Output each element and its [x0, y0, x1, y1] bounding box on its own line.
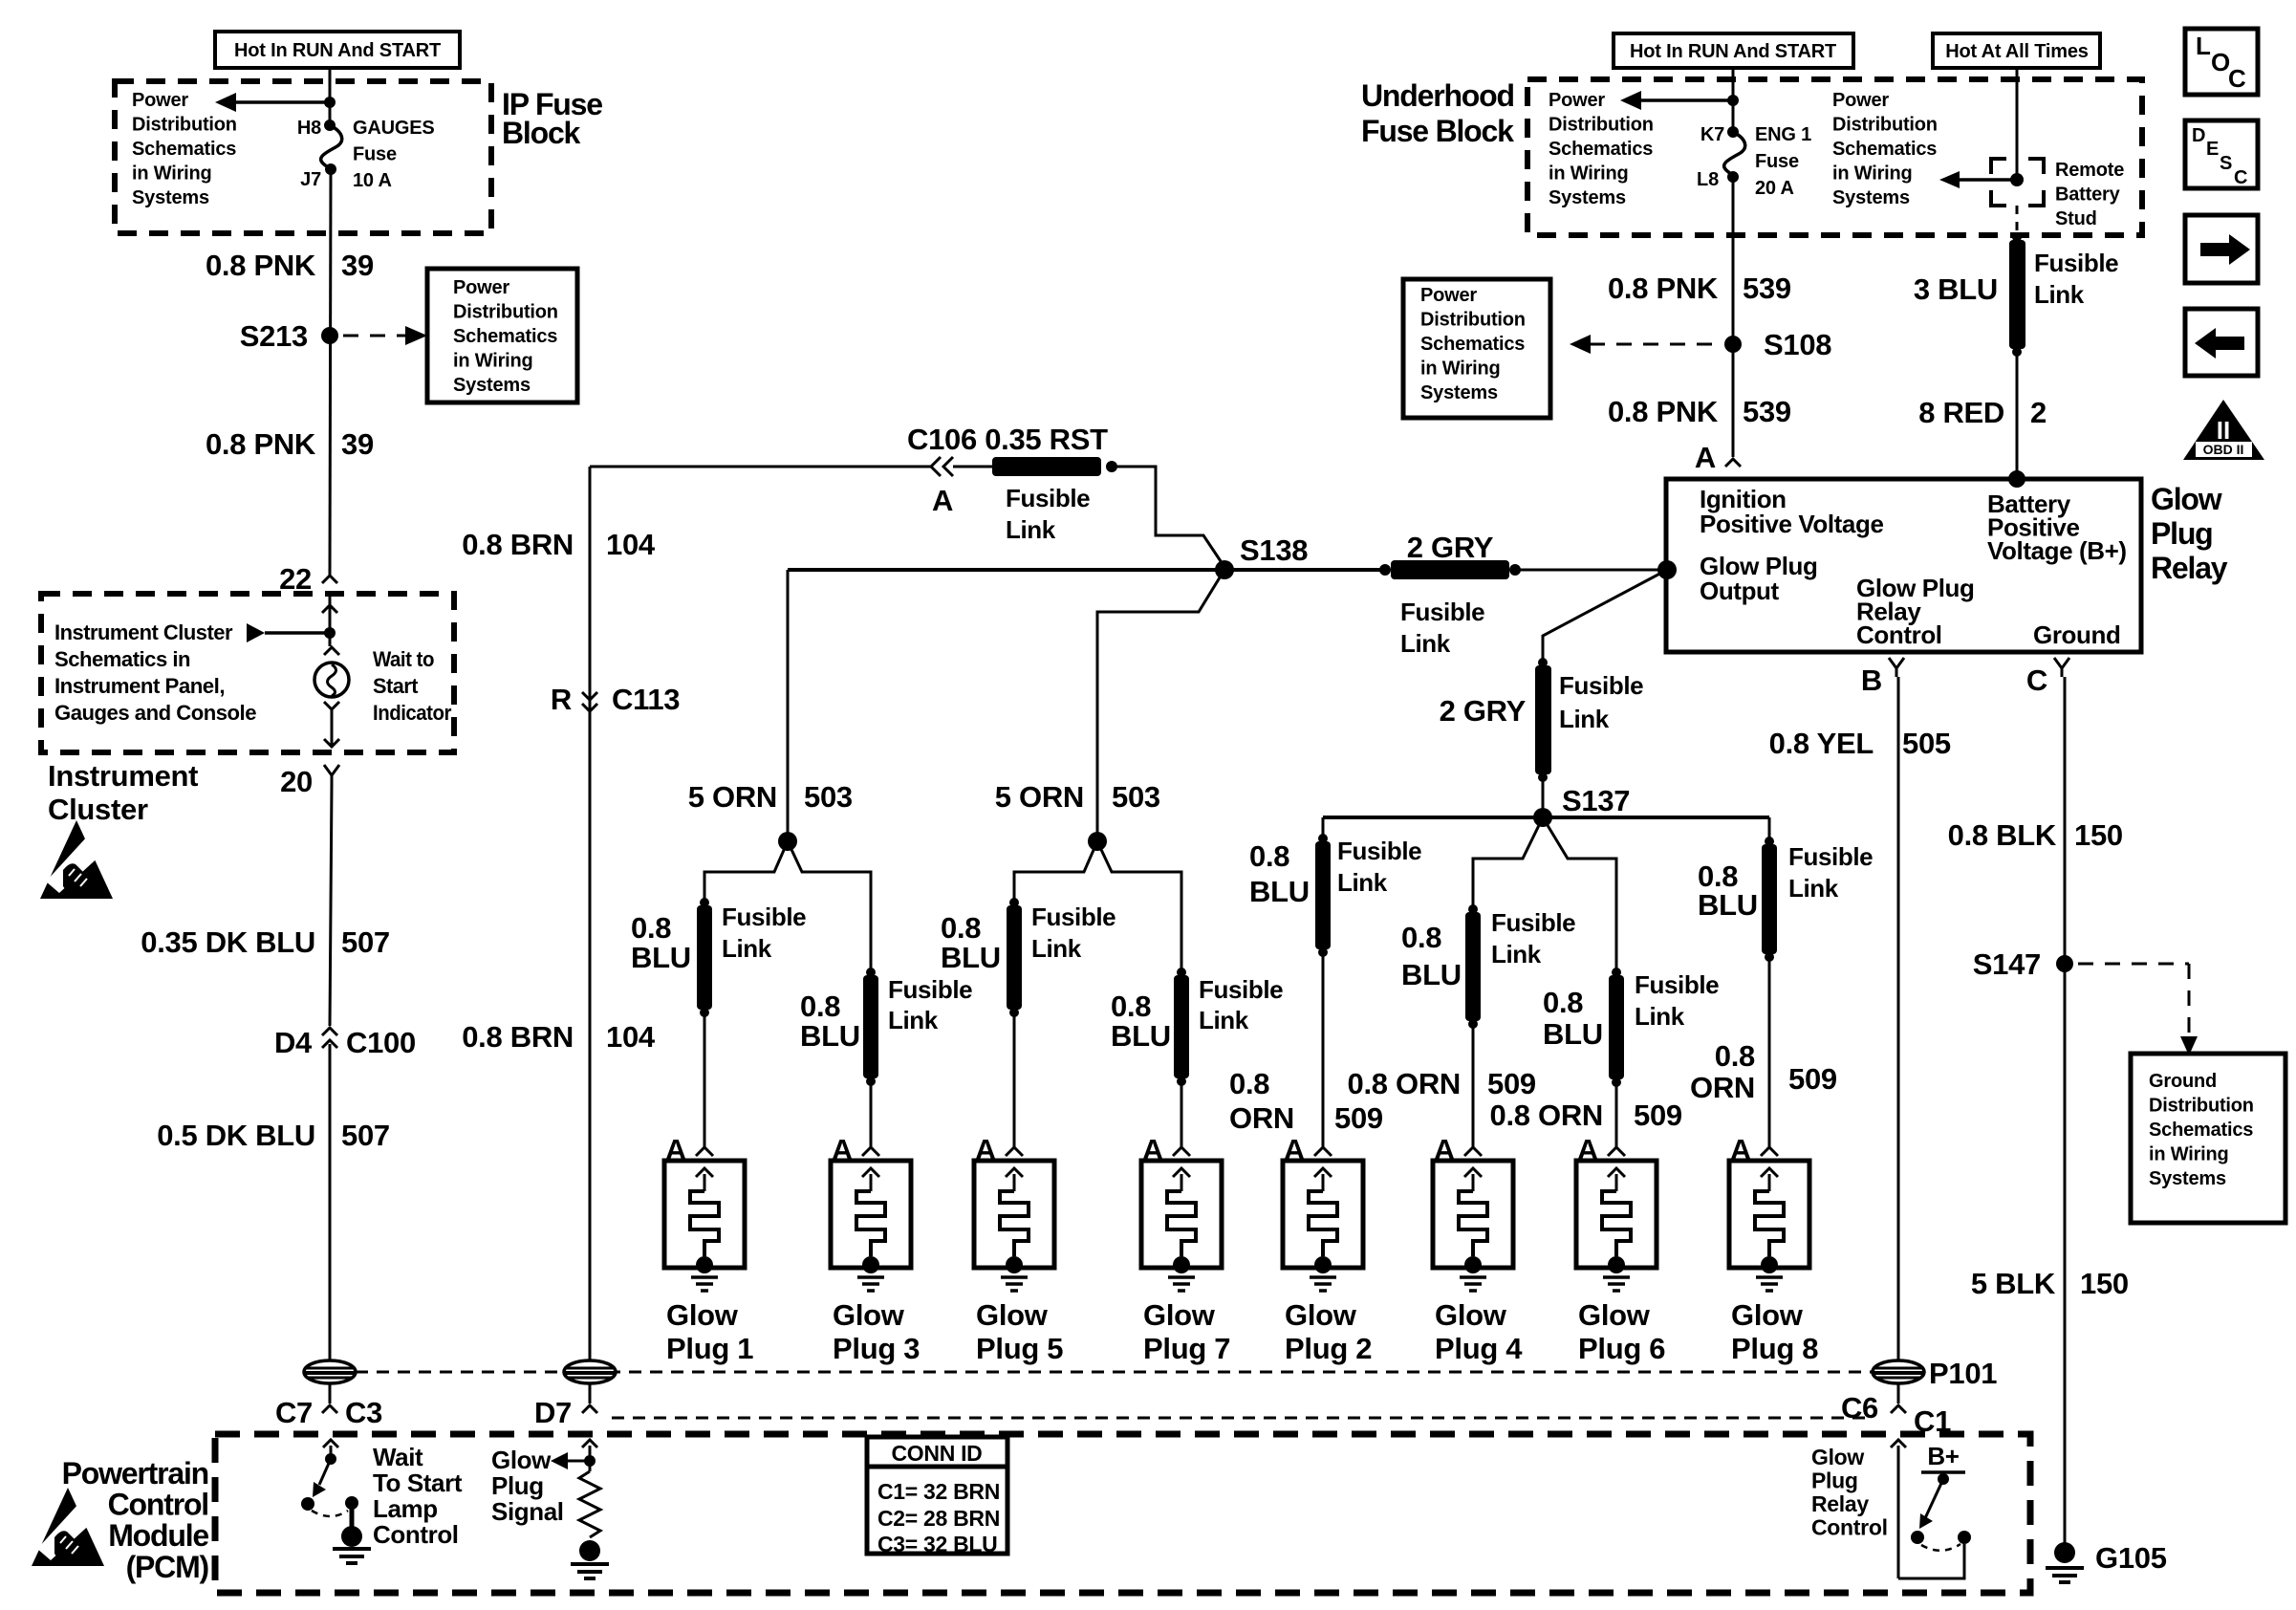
svg-text:D4: D4	[274, 1026, 313, 1059]
svg-text:BLU: BLU	[800, 1019, 860, 1053]
svg-text:Control: Control	[1856, 620, 1942, 649]
glow plug 8	[1729, 1161, 1809, 1268]
svg-text:507: 507	[341, 925, 390, 959]
svg-text:C3: C3	[345, 1396, 382, 1429]
reference box: ground distribution schematics	[2131, 1054, 2285, 1223]
fuse ENG 1 20A (pins K7/L8)	[1727, 126, 1739, 138]
svg-text:Signal: Signal	[491, 1497, 564, 1526]
svg-text:Systems: Systems	[453, 375, 531, 396]
wire below indicator with arrow	[331, 709, 334, 745]
svg-text:0.8: 0.8	[631, 911, 671, 945]
svg-text:Fusible: Fusible	[1199, 975, 1283, 1004]
svg-text:Link: Link	[1491, 940, 1542, 968]
svg-text:O: O	[2211, 48, 2230, 76]
svg-text:0.8: 0.8	[1229, 1067, 1269, 1100]
svg-text:39: 39	[341, 249, 374, 282]
svg-text:10 A: 10 A	[353, 170, 392, 191]
ground at glow plug 2	[1310, 1275, 1336, 1279]
svg-text:0.8 YEL: 0.8 YEL	[1769, 727, 1874, 760]
glow plug 6	[1576, 1161, 1657, 1268]
wait to start indicator lamp	[324, 647, 339, 655]
svg-text:Systems: Systems	[1549, 187, 1626, 208]
ground G105	[2054, 1542, 2075, 1563]
bus S138 right to 2 GRY link	[1224, 568, 1385, 572]
ground at glow plug 1	[691, 1275, 718, 1279]
svg-text:(PCM): (PCM)	[126, 1550, 209, 1584]
svg-text:Powertrain: Powertrain	[62, 1456, 208, 1490]
svg-text:Fusible: Fusible	[722, 903, 806, 931]
svg-text:Plug: Plug	[2151, 516, 2213, 551]
fusible link for glow plug 2	[1318, 834, 1328, 843]
svg-text:503: 503	[804, 780, 853, 814]
svg-text:Distribution: Distribution	[453, 302, 558, 323]
svg-text:B: B	[1861, 664, 1882, 697]
glow plug 3	[831, 1161, 911, 1268]
svg-text:Remote: Remote	[2055, 160, 2124, 181]
fusible link for glow plug 5	[1009, 898, 1019, 907]
svg-text:0.8 BLK: 0.8 BLK	[1948, 818, 2057, 852]
svg-text:Fuse: Fuse	[1755, 151, 1799, 172]
ground at glow plug 6	[1603, 1275, 1630, 1279]
switch arm with arrow	[1925, 1479, 1943, 1518]
svg-text:Positive Voltage: Positive Voltage	[1700, 510, 1884, 538]
svg-text:Lamp: Lamp	[373, 1494, 438, 1523]
svg-text:Instrument Panel,: Instrument Panel,	[54, 674, 225, 698]
branch to glow plug 1	[704, 841, 788, 900]
svg-text:2 GRY: 2 GRY	[1407, 531, 1494, 564]
svg-text:Module: Module	[108, 1518, 208, 1553]
wire drop to glow plug 2 link	[1322, 817, 1325, 836]
svg-text:Fusible: Fusible	[1031, 903, 1116, 931]
node at arrow junction	[324, 97, 336, 108]
svg-text:Link: Link	[1031, 934, 1082, 963]
svg-text:D: D	[2192, 125, 2205, 146]
svg-text:Schematics: Schematics	[1549, 139, 1653, 160]
svg-text:Distribution: Distribution	[132, 115, 237, 136]
svg-text:104: 104	[606, 528, 656, 561]
svg-text:Fusible: Fusible	[1491, 908, 1575, 937]
icon arrow left	[2185, 309, 2258, 376]
svg-text:CONN ID: CONN ID	[891, 1441, 982, 1466]
svg-text:C113: C113	[612, 683, 680, 716]
dashed arrow S108 to power distribution note	[1590, 343, 1720, 346]
svg-text:5 ORN: 5 ORN	[995, 780, 1084, 814]
wire relay C (ground) down to G105	[2064, 677, 2067, 1547]
connector C106 pin A	[931, 457, 941, 476]
svg-text:Control: Control	[108, 1488, 208, 1522]
grommet on wait-to-start wire	[304, 1360, 356, 1383]
arrow from note to wire	[247, 623, 265, 642]
svg-text:BLU: BLU	[1111, 1019, 1171, 1053]
svg-text:Schematics: Schematics	[1832, 139, 1937, 160]
svg-text:Fusible: Fusible	[888, 975, 972, 1004]
fusible link for glow plug 7	[1177, 968, 1186, 977]
svg-text:Link: Link	[888, 1006, 939, 1034]
svg-text:Fusible: Fusible	[1635, 970, 1719, 999]
glow plug 1	[664, 1161, 745, 1268]
PCM connector dashed line C1 row	[612, 1417, 1870, 1420]
wire 5 ORN drop 1	[787, 570, 790, 837]
svg-text:Ground: Ground	[2033, 620, 2120, 649]
svg-text:Power: Power	[1549, 90, 1605, 111]
svg-text:C3= 32 BLU: C3= 32 BLU	[877, 1532, 997, 1556]
bulkhead dashed line P100	[356, 1371, 1872, 1374]
svg-text:C: C	[2228, 64, 2246, 93]
wire relay B down to P101	[1897, 677, 1900, 1361]
svg-text:Control: Control	[373, 1520, 459, 1549]
dashed switch arc	[1921, 1544, 1960, 1551]
svg-text:Power: Power	[1832, 90, 1889, 111]
svg-text:Block: Block	[502, 116, 581, 150]
svg-text:3 BLU: 3 BLU	[1914, 272, 1998, 306]
svg-text:Schematics in: Schematics in	[54, 647, 190, 671]
svg-text:Schematics: Schematics	[453, 326, 557, 347]
svg-text:BLU: BLU	[1698, 888, 1758, 922]
svg-text:0.8: 0.8	[800, 990, 840, 1023]
svg-text:Fuse Block: Fuse Block	[1361, 114, 1514, 148]
svg-text:A: A	[932, 484, 953, 517]
svg-text:Output: Output	[1700, 577, 1780, 605]
svg-text:C1= 32 BRN: C1= 32 BRN	[877, 1479, 1000, 1504]
svg-text:Instrument Cluster: Instrument Cluster	[54, 620, 233, 644]
Instrument Cluster dashed box	[41, 594, 454, 752]
svg-text:Instrument: Instrument	[48, 759, 198, 793]
dashed arrow S213 to power distribution note	[343, 335, 405, 337]
svg-text:Fusible: Fusible	[1788, 842, 1873, 871]
ground at glow plug 4	[1460, 1275, 1486, 1279]
svg-text:S137: S137	[1562, 784, 1630, 817]
arrow to power distribution (underhood)	[1640, 98, 1733, 102]
wire fusible link to relay B+	[2016, 353, 2019, 475]
svg-text:Fusible: Fusible	[2034, 249, 2118, 277]
svg-text:B+: B+	[1927, 1442, 1959, 1470]
svg-text:ORN: ORN	[1229, 1101, 1294, 1135]
svg-text:0.8: 0.8	[941, 911, 981, 945]
Powertrain Control Module dashed box	[215, 1434, 2030, 1593]
wire into indicator	[329, 594, 332, 646]
svg-text:8 RED: 8 RED	[1918, 396, 2004, 429]
ground at lamp control	[333, 1547, 371, 1551]
svg-text:0.8 ORN: 0.8 ORN	[1490, 1099, 1604, 1132]
wire fusible link to glow plug 6	[1615, 1085, 1618, 1147]
svg-text:Link: Link	[1635, 1002, 1685, 1031]
svg-text:509: 509	[1634, 1099, 1682, 1132]
splice S213	[321, 327, 338, 344]
svg-text:Glow: Glow	[1731, 1298, 1804, 1332]
splice S108	[1724, 336, 1742, 353]
branch to glow plug 5	[1014, 841, 1097, 900]
svg-text:D7: D7	[534, 1396, 572, 1429]
svg-text:Plug 2: Plug 2	[1285, 1332, 1372, 1365]
svg-text:Link: Link	[1199, 1006, 1249, 1034]
resistor glow plug signal	[579, 1471, 600, 1537]
splice S147	[2056, 955, 2073, 972]
svg-text:Gauges and Console: Gauges and Console	[54, 701, 256, 725]
icon arrow right	[2185, 215, 2258, 283]
svg-text:Relay: Relay	[1811, 1491, 1869, 1516]
svg-text:G105: G105	[2095, 1541, 2167, 1575]
wire grommet to PCM pin C7/C3	[329, 1383, 332, 1403]
branch to glow plug 7	[1097, 841, 1181, 968]
svg-text:Plug 1: Plug 1	[666, 1332, 753, 1365]
splice S138	[1215, 560, 1234, 579]
svg-text:Glow: Glow	[1285, 1298, 1357, 1332]
svg-text:GAUGES: GAUGES	[353, 118, 434, 139]
arrow glow plug signal label	[551, 1452, 568, 1469]
svg-text:Fusible: Fusible	[1559, 671, 1643, 700]
connector D7 into PCM	[582, 1405, 597, 1413]
wire C106 horizontal to corner	[590, 466, 931, 468]
svg-text:0.8 ORN: 0.8 ORN	[1348, 1067, 1462, 1100]
connector C7 / C3 into PCM	[322, 1405, 337, 1413]
svg-text:0.8 PNK: 0.8 PNK	[1608, 395, 1719, 428]
svg-text:Glow: Glow	[1811, 1445, 1864, 1469]
svg-text:Plug 8: Plug 8	[1731, 1332, 1818, 1365]
svg-text:BLU: BLU	[1401, 958, 1462, 991]
svg-text:in Wiring: in Wiring	[453, 351, 533, 372]
svg-text:Control: Control	[1811, 1515, 1888, 1540]
fusible link 2 GRY horizontal	[1379, 564, 1391, 576]
svg-text:509: 509	[1334, 1101, 1383, 1135]
svg-text:Schematics: Schematics	[1420, 334, 1525, 355]
svg-text:Systems: Systems	[1832, 187, 1910, 208]
svg-text:Glow: Glow	[1143, 1298, 1216, 1332]
fusible link 2 GRY vertical	[1538, 658, 1548, 667]
svg-text:Hot At All Times: Hot At All Times	[1945, 41, 2088, 62]
glow plug 2	[1283, 1161, 1363, 1268]
icon OBD II triangle	[2183, 400, 2264, 460]
svg-text:C2= 28 BRN: C2= 28 BRN	[877, 1506, 1000, 1531]
wire fusible link to glow plug 4	[1472, 1027, 1475, 1147]
icon DESC	[2185, 120, 2258, 188]
Underhood Fuse Block dashed box	[1527, 79, 2142, 235]
branch to glow plug 3	[788, 841, 871, 968]
ground at glow plug 3	[857, 1275, 884, 1279]
svg-text:509: 509	[1788, 1062, 1837, 1096]
svg-text:Link: Link	[1337, 868, 1388, 897]
fusible link 3 BLU	[2012, 232, 2022, 242]
svg-text:Link: Link	[722, 934, 772, 963]
grommet P101	[1873, 1360, 1924, 1383]
svg-text:Link: Link	[1559, 705, 1610, 733]
svg-text:in Wiring: in Wiring	[1832, 163, 1913, 185]
wire fuse J7 down to S213	[330, 169, 331, 576]
diagonal S138 to 5 ORN drop 2	[1097, 570, 1224, 837]
svg-text:C6: C6	[1841, 1391, 1878, 1425]
fusible link for glow plug 6	[1612, 968, 1621, 977]
svg-text:BLU: BLU	[941, 941, 1001, 974]
bus S138 left to 5 ORN drop	[788, 568, 1224, 572]
grommet on glow plug signal wire	[564, 1360, 616, 1383]
PCM glow plug signal input	[589, 1446, 592, 1471]
svg-text:104: 104	[606, 1020, 656, 1054]
fusible link for glow plug 3	[866, 968, 876, 977]
branch S137 to glow plug 6	[1543, 817, 1616, 969]
svg-text:Glow: Glow	[2151, 482, 2222, 516]
svg-text:539: 539	[1743, 395, 1791, 428]
glow plug 5	[974, 1161, 1054, 1268]
svg-text:II: II	[2217, 416, 2230, 445]
svg-text:Power: Power	[453, 277, 509, 298]
svg-text:Systems: Systems	[1420, 382, 1498, 403]
glow plug 4	[1433, 1161, 1513, 1268]
svg-text:507: 507	[341, 1119, 390, 1152]
svg-text:in Wiring: in Wiring	[1549, 163, 1629, 185]
wire fusible link to glow plug 3	[870, 1084, 873, 1147]
svg-text:Plug 3: Plug 3	[833, 1332, 920, 1365]
wire link to S137	[1542, 778, 1545, 815]
wire fuse L8 down to relay pin A	[1732, 177, 1735, 457]
junction splice 5 ORN right	[1088, 832, 1107, 851]
svg-text:150: 150	[2080, 1267, 2129, 1300]
glow plug relay box	[1666, 479, 2141, 652]
svg-text:S147: S147	[1973, 947, 2041, 981]
wire fusible link to glow plug 8	[1768, 960, 1771, 1147]
svg-text:Glow: Glow	[491, 1446, 552, 1474]
arrow remote battery stud to power distribution	[1958, 178, 2017, 182]
svg-text:Distribution: Distribution	[1420, 310, 1526, 331]
wire fusible link to glow plug 1	[704, 1015, 706, 1147]
wire fusible link to glow plug 2	[1322, 955, 1325, 1147]
svg-text:Voltage (B+): Voltage (B+)	[1987, 536, 2127, 565]
svg-text:L8: L8	[1697, 169, 1719, 190]
svg-text:Systems: Systems	[2149, 1168, 2226, 1189]
wire C113 vertical down to D7 grommet	[589, 467, 592, 1361]
svg-text:Underhood: Underhood	[1361, 78, 1514, 113]
wire 2 GRY link to glow plug relay output	[1515, 569, 1667, 572]
svg-text:Link: Link	[1788, 874, 1839, 903]
svg-text:0.8: 0.8	[1401, 921, 1441, 954]
svg-text:Glow: Glow	[1435, 1298, 1507, 1332]
svg-text:509: 509	[1487, 1067, 1536, 1100]
dashed wire stud to fusible link	[2016, 206, 2019, 235]
wire 20 down to C100	[330, 784, 332, 1026]
fusible link for glow plug 1	[700, 898, 709, 907]
svg-text:ORN: ORN	[1690, 1071, 1755, 1104]
svg-text:Start: Start	[373, 674, 419, 698]
wire from Hot In RUN And START to fuse	[329, 68, 332, 125]
svg-text:0.8 BRN: 0.8 BRN	[462, 528, 574, 561]
svg-text:Relay: Relay	[2151, 551, 2228, 585]
svg-text:C: C	[2234, 167, 2247, 188]
svg-text:L: L	[2196, 32, 2211, 60]
arrow to power distribution schematics	[235, 100, 330, 104]
svg-text:Hot In RUN And START: Hot In RUN And START	[1630, 41, 1836, 62]
svg-text:Fusible: Fusible	[1337, 837, 1421, 865]
svg-text:BLU: BLU	[1543, 1017, 1603, 1051]
svg-text:503: 503	[1112, 780, 1160, 814]
power feed box "Hot At All Times"	[1933, 33, 2100, 68]
svg-text:Distribution: Distribution	[1549, 115, 1654, 136]
svg-text:0.8: 0.8	[1715, 1039, 1755, 1073]
svg-text:To Start: To Start	[373, 1469, 463, 1497]
svg-text:BLU: BLU	[631, 941, 691, 974]
svg-text:E: E	[2206, 139, 2219, 160]
relay pin glow plug output	[1657, 560, 1677, 579]
svg-text:Wait to: Wait to	[373, 647, 434, 671]
reference box: power distribution schematics in wiring systems	[427, 269, 577, 402]
svg-text:Systems: Systems	[132, 187, 209, 208]
connector C6 / C1 into PCM	[1891, 1405, 1906, 1413]
svg-text:0.8 PNK: 0.8 PNK	[1608, 272, 1719, 305]
icon LOC	[2185, 29, 2258, 95]
svg-text:C7: C7	[275, 1396, 313, 1429]
svg-text:0.8: 0.8	[1111, 990, 1151, 1023]
splice S137	[1533, 808, 1552, 827]
svg-text:2: 2	[2030, 396, 2047, 429]
svg-text:S138: S138	[1240, 533, 1308, 567]
svg-text:in Wiring: in Wiring	[132, 163, 212, 185]
power feed box "Hot In RUN And START" (IP)	[215, 32, 460, 68]
svg-text:K7: K7	[1700, 124, 1724, 145]
svg-text:Fusible: Fusible	[1006, 484, 1090, 512]
svg-text:Ground: Ground	[2149, 1071, 2217, 1092]
power feed box "Hot In RUN And START" (underhood)	[1614, 33, 1853, 68]
fusible link RST	[953, 466, 992, 468]
junction splice 5 ORN left	[778, 832, 797, 851]
svg-text:Plug 5: Plug 5	[976, 1332, 1063, 1365]
fusible link for glow plug 8	[1765, 837, 1774, 846]
svg-text:150: 150	[2074, 818, 2123, 852]
wire fusible link to glow plug 5	[1013, 1015, 1016, 1147]
svg-text:Distribution: Distribution	[2149, 1096, 2254, 1117]
IP Fuse Block dashed box	[115, 81, 491, 233]
svg-text:Schematics: Schematics	[132, 139, 236, 160]
ground at glow plug 7	[1168, 1275, 1195, 1279]
svg-text:Link: Link	[2034, 280, 2085, 309]
svg-text:C: C	[2026, 664, 2047, 697]
svg-text:0.8 BRN: 0.8 BRN	[462, 1020, 574, 1054]
svg-text:Power: Power	[132, 90, 188, 111]
svg-text:22: 22	[279, 562, 312, 596]
bus S137 horizontal	[1323, 816, 1769, 819]
wire grommet to PCM pin D7	[589, 1383, 592, 1403]
svg-text:S213: S213	[240, 319, 308, 353]
fuse GAUGES 10A (pins H8/J7)	[324, 120, 336, 131]
svg-text:20 A: 20 A	[1755, 178, 1794, 199]
svg-text:Glow: Glow	[976, 1298, 1049, 1332]
svg-text:0.8: 0.8	[1543, 986, 1583, 1019]
svg-text:0.5 DK BLU: 0.5 DK BLU	[157, 1119, 315, 1152]
svg-text:S108: S108	[1764, 328, 1831, 361]
wire drop to glow plug 8 link	[1768, 817, 1771, 838]
svg-text:in Wiring: in Wiring	[2149, 1144, 2229, 1165]
ground at glow plug 8	[1756, 1275, 1783, 1279]
svg-text:Glow: Glow	[833, 1298, 905, 1332]
svg-text:J7: J7	[300, 169, 321, 190]
svg-text:in Wiring: in Wiring	[1420, 359, 1501, 380]
svg-text:0.8 PNK: 0.8 PNK	[206, 249, 316, 282]
svg-text:A: A	[1695, 441, 1716, 474]
svg-text:0.8 PNK: 0.8 PNK	[206, 427, 316, 461]
wire Hot In RUN to fuse ENG 1	[1732, 68, 1735, 130]
svg-text:Plug 7: Plug 7	[1143, 1332, 1230, 1365]
svg-text:539: 539	[1743, 272, 1791, 305]
svg-text:ENG 1: ENG 1	[1755, 124, 1811, 145]
svg-text:20: 20	[280, 765, 313, 798]
svg-text:BLU: BLU	[1249, 875, 1310, 908]
fusible link for glow plug 4	[1468, 904, 1478, 914]
svg-text:Distribution: Distribution	[1832, 115, 1938, 136]
svg-text:Plug 4: Plug 4	[1435, 1332, 1523, 1365]
svg-text:5 BLK: 5 BLK	[1971, 1267, 2056, 1300]
ESD symbol PCM	[32, 1488, 104, 1566]
wire fusible link to S138	[1116, 467, 1224, 567]
svg-text:Fuse: Fuse	[353, 144, 397, 165]
branch S137 to glow plug 4	[1473, 817, 1543, 906]
svg-text:0.8: 0.8	[1249, 839, 1289, 873]
ground at glow plug signal	[571, 1562, 609, 1566]
